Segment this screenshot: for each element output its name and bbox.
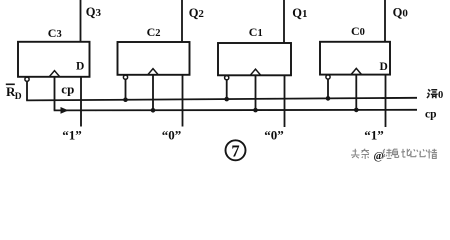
svg-text:D: D [76, 61, 84, 73]
svg-text:C0: C0 [351, 24, 365, 38]
svg-text:D: D [380, 61, 388, 73]
svg-text:“0”: “0” [264, 127, 284, 142]
svg-text:C3: C3 [48, 26, 62, 40]
svg-text:C2: C2 [147, 25, 161, 39]
svg-text:Q2: Q2 [189, 6, 205, 20]
svg-text:D: D [15, 92, 22, 102]
svg-text:Q0: Q0 [393, 5, 409, 19]
svg-text:cp: cp [61, 81, 74, 96]
svg-text:“1”: “1” [62, 127, 82, 142]
svg-text:C1: C1 [249, 25, 263, 39]
svg-text:0: 0 [438, 90, 443, 101]
svg-text:“1”: “1” [364, 127, 384, 142]
svg-text:Q3: Q3 [86, 5, 102, 19]
svg-text:Q1: Q1 [292, 6, 307, 20]
svg-text:cp: cp [425, 109, 437, 121]
svg-text:“0”: “0” [162, 127, 182, 142]
svg-text:@: @ [374, 150, 384, 162]
svg-text:7: 7 [231, 142, 239, 161]
